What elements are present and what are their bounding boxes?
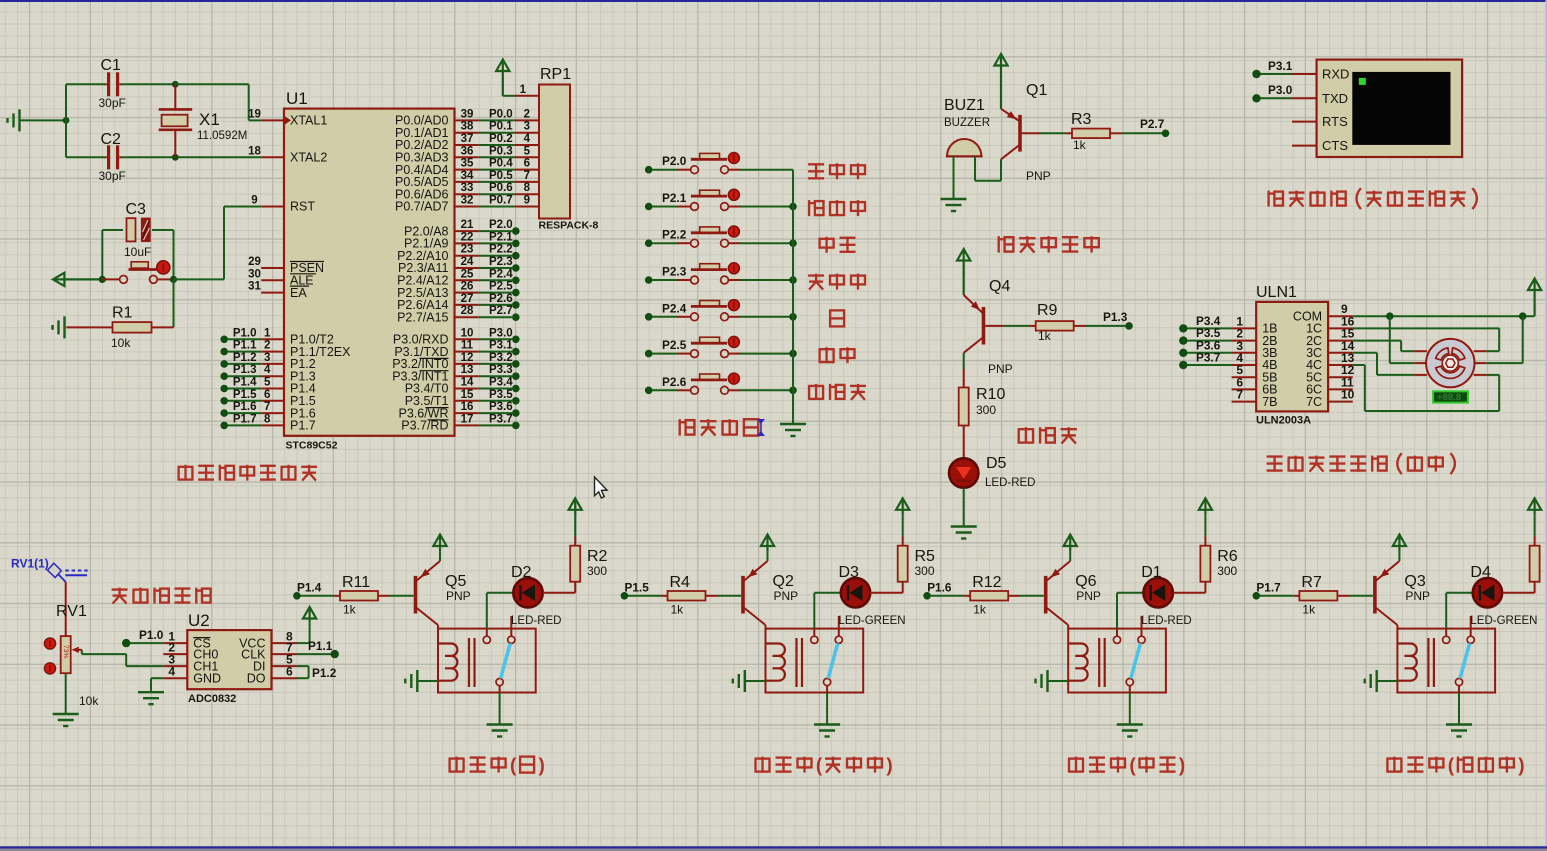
wire P3.7 to ULN bbox=[1187, 364, 1232, 366]
U1 pin P1.3 (4) bbox=[261, 375, 284, 377]
reset button actuator bbox=[157, 261, 170, 274]
svg-text:D1: D1 bbox=[1141, 564, 1162, 581]
svg-text:P1.5: P1.5 bbox=[625, 581, 650, 595]
node P2.5 terminal bbox=[512, 289, 520, 297]
terminal pin CTS bbox=[1292, 145, 1317, 147]
svg-text:9: 9 bbox=[524, 195, 530, 207]
U1 pin P3.6/WR (16) bbox=[455, 412, 479, 414]
wire P3.5 to ULN bbox=[1187, 340, 1232, 342]
capacitor C3 (10uF polarized) bbox=[127, 218, 136, 241]
wire net P0.4 bbox=[479, 169, 515, 171]
LED D4 (LED-GREEN) bbox=[1473, 578, 1502, 607]
svg-text:7: 7 bbox=[264, 401, 270, 413]
svg-text:11: 11 bbox=[461, 340, 474, 352]
node P2.4 terminal bbox=[512, 277, 520, 285]
svg-text:15: 15 bbox=[461, 389, 474, 401]
wire P2.0 to button bbox=[652, 169, 677, 171]
power arrow (reset, pointing left) bbox=[54, 278, 102, 280]
chip U2 ADC0832 body bbox=[187, 630, 271, 689]
svg-text:R9: R9 bbox=[1037, 302, 1058, 319]
wire C2 row left bbox=[66, 156, 105, 158]
ULN1 pin 3B (3) bbox=[1232, 352, 1257, 354]
mouse cursor bbox=[595, 477, 608, 498]
wire probe to RV1 bbox=[65, 582, 67, 636]
label light adjust bbox=[112, 588, 128, 590]
svg-text:R1: R1 bbox=[112, 305, 133, 322]
power arrow (R6) bbox=[1204, 500, 1206, 516]
svg-text:1k: 1k bbox=[1302, 603, 1316, 617]
wire ground to relay coil bbox=[1048, 680, 1069, 682]
wire C1 to junction bbox=[122, 83, 175, 85]
svg-text:30pF: 30pF bbox=[99, 96, 126, 110]
svg-text:6: 6 bbox=[524, 158, 530, 170]
svg-text:CTS: CTS bbox=[1322, 138, 1348, 153]
U1 pin P3.2/INT0 (12) bbox=[455, 363, 479, 365]
svg-text:P0.4: P0.4 bbox=[489, 158, 513, 170]
svg-text:10: 10 bbox=[1341, 388, 1355, 402]
wire ground to relay coil bbox=[1377, 680, 1398, 682]
push button (reset) bbox=[102, 278, 119, 280]
LED D1 (LED-RED) bbox=[1144, 578, 1173, 607]
ground (left of crystal caps) bbox=[18, 109, 20, 131]
svg-text:P1.2: P1.2 bbox=[312, 666, 337, 680]
ULN1 pin 1C (16) bbox=[1328, 327, 1353, 329]
resistor pack RP1 body bbox=[539, 85, 570, 219]
text cursor artifact bbox=[760, 419, 762, 436]
svg-text:13: 13 bbox=[461, 364, 474, 376]
button P2.1 actuator bbox=[728, 189, 739, 200]
svg-text:24: 24 bbox=[461, 256, 474, 268]
wire R9 to P1.3 bbox=[1086, 325, 1126, 327]
virtual terminal (phone sim) bbox=[1317, 60, 1463, 157]
node P1.7 terminal bbox=[220, 422, 228, 430]
svg-text:P3.2: P3.2 bbox=[489, 352, 513, 364]
push button P2.4 bbox=[677, 316, 691, 318]
transistor Q4 PNP bbox=[982, 307, 986, 345]
relay core bbox=[795, 638, 797, 687]
svg-text:31: 31 bbox=[248, 281, 261, 293]
power arrow (Q3) bbox=[1398, 536, 1400, 551]
svg-text:10k: 10k bbox=[111, 336, 131, 350]
svg-text:37: 37 bbox=[461, 133, 474, 145]
wire 1C to motor right top bbox=[1353, 327, 1500, 329]
node P1.0 terminal (U2) bbox=[122, 639, 130, 647]
relay switch blade bbox=[828, 643, 838, 678]
svg-text:RV1: RV1 bbox=[56, 603, 87, 620]
node P3.7 terminal bbox=[512, 422, 520, 430]
svg-text:P3.1: P3.1 bbox=[1268, 59, 1293, 73]
node P3.4 terminal (ULN) bbox=[1179, 324, 1187, 332]
resistor R12 (1k) bbox=[964, 595, 970, 597]
ULN1 pin 4B (4) bbox=[1232, 364, 1257, 366]
svg-text:Q5: Q5 bbox=[445, 573, 466, 590]
label 继电器(门) bbox=[448, 759, 450, 773]
svg-text:PNP: PNP bbox=[988, 362, 1013, 376]
U1 pin P0.3/AD3 (36) bbox=[455, 156, 479, 158]
power arrow (RP1) bbox=[502, 61, 504, 96]
wire P1.5 to R4 bbox=[628, 595, 662, 597]
svg-text:LED-RED: LED-RED bbox=[985, 477, 1035, 489]
U1 pin P2.1/A9 (22) bbox=[455, 242, 479, 244]
wire BUZ1 left leg to ground bbox=[953, 156, 955, 199]
svg-text:D3: D3 bbox=[839, 564, 860, 581]
relay contact poles bbox=[1443, 636, 1450, 643]
node P1.7 terminal (relay) bbox=[1253, 592, 1261, 600]
svg-text:9: 9 bbox=[251, 195, 257, 207]
svg-text:1: 1 bbox=[520, 84, 527, 96]
wire D4 to R8 bbox=[1502, 592, 1535, 594]
svg-text:Q4: Q4 bbox=[989, 278, 1010, 295]
svg-text:33: 33 bbox=[461, 182, 474, 194]
node COM junction A bbox=[1386, 312, 1394, 320]
relay coil box bbox=[1068, 629, 1166, 693]
svg-text:P0.1: P0.1 bbox=[489, 121, 513, 133]
svg-text:P1.1: P1.1 bbox=[308, 639, 333, 653]
svg-text:P0.2: P0.2 bbox=[489, 133, 513, 145]
capacitor C1 bbox=[107, 72, 110, 96]
U1 pin P3.7/RD (17) bbox=[455, 424, 479, 426]
svg-text:P2.7: P2.7 bbox=[1140, 117, 1165, 131]
U1 pin P1.1/T2EX (2) bbox=[261, 351, 284, 353]
svg-text:P1.6: P1.6 bbox=[233, 401, 257, 413]
node button bus junction 6 bbox=[789, 387, 797, 395]
U1 pin ALE (30) bbox=[261, 279, 284, 281]
svg-text:R12: R12 bbox=[972, 574, 1001, 591]
U1 pin P2.2/A10 (23) bbox=[455, 255, 479, 257]
stepper motor pins bbox=[1414, 350, 1427, 352]
svg-text:10k: 10k bbox=[79, 694, 99, 708]
capacitor C2 bbox=[107, 145, 110, 169]
U1 pin P0.7/AD7 (32) bbox=[455, 206, 479, 208]
power arrow (Q2) bbox=[766, 536, 768, 551]
svg-text:RP1: RP1 bbox=[540, 66, 571, 83]
node P3.6 terminal bbox=[512, 409, 520, 417]
svg-text:P0.3: P0.3 bbox=[489, 145, 513, 157]
relay coil box bbox=[438, 629, 536, 693]
svg-text:P1.4: P1.4 bbox=[297, 581, 322, 595]
node P1.0 terminal bbox=[220, 336, 228, 344]
power arrow (R5) bbox=[902, 500, 904, 516]
wire P1.0 to CS bbox=[130, 642, 163, 644]
wire P2.1 to button bbox=[652, 206, 677, 208]
wire Q3 emitter to power bbox=[1398, 551, 1400, 561]
RV1 adjust buttons bbox=[44, 638, 55, 649]
svg-text:P3.7: P3.7 bbox=[489, 413, 513, 425]
wire net P2.7 bbox=[479, 316, 512, 318]
svg-text:P2.0: P2.0 bbox=[489, 219, 513, 231]
resistor R8 (300) bbox=[1530, 546, 1540, 582]
svg-text:PNP: PNP bbox=[1076, 589, 1101, 603]
resistor R9 bbox=[1030, 325, 1036, 327]
wire relay lower contact to ground bbox=[1129, 686, 1131, 693]
wire net P0.7 bbox=[479, 206, 515, 208]
resistor R2 (300) bbox=[570, 546, 580, 582]
U1 pin P2.0/A8 (21) bbox=[455, 230, 479, 232]
wire net P1.5 bbox=[228, 400, 261, 402]
buzzer BUZ1 bbox=[946, 155, 983, 157]
svg-text:RESPACK-8: RESPACK-8 bbox=[539, 220, 599, 232]
wire R4 to Q2 base bbox=[718, 595, 742, 597]
label 照明灯 bbox=[808, 386, 810, 400]
svg-text:P2.5: P2.5 bbox=[662, 338, 687, 352]
wire button bus bbox=[792, 170, 794, 424]
wire R3 to P2.7 bbox=[1122, 132, 1162, 134]
U1 pin XTAL1 (19) bbox=[261, 119, 284, 121]
wire net P2.4 bbox=[479, 279, 512, 281]
wire relay lower contact to ground bbox=[826, 686, 828, 693]
svg-text:P3.4: P3.4 bbox=[489, 377, 513, 389]
ULN1 pin 1B (1) bbox=[1232, 327, 1257, 329]
svg-text:P1.4: P1.4 bbox=[233, 377, 257, 389]
wire R11 to Q5 base bbox=[390, 595, 414, 597]
svg-text:30: 30 bbox=[248, 268, 261, 280]
relay coil bbox=[439, 644, 458, 681]
node button bus junction 4 bbox=[789, 313, 797, 321]
svg-text:PNP: PNP bbox=[446, 589, 471, 603]
svg-text:(: ( bbox=[1129, 756, 1136, 777]
wire P2.5 to button bbox=[652, 353, 677, 355]
svg-text:ULN2003A: ULN2003A bbox=[1256, 415, 1311, 427]
wire P1.7 to R7 bbox=[1260, 595, 1294, 597]
node P3.0 terminal bbox=[512, 336, 520, 344]
U1 pin P3.0/RXD (10) bbox=[455, 338, 479, 340]
power arrow (Q6) bbox=[1069, 536, 1071, 551]
svg-text:RST: RST bbox=[290, 200, 315, 214]
svg-text:+88.8: +88.8 bbox=[1437, 392, 1461, 403]
svg-text:P2.3: P2.3 bbox=[662, 265, 687, 279]
svg-text:4: 4 bbox=[524, 133, 531, 145]
svg-text:7C: 7C bbox=[1306, 395, 1322, 409]
svg-text:1k: 1k bbox=[1073, 138, 1087, 152]
resistor R1 bbox=[66, 326, 112, 328]
wire relay contact to LED bbox=[486, 629, 488, 637]
svg-text:P3.5: P3.5 bbox=[489, 389, 513, 401]
U1 pin P3.4/T0 (14) bbox=[455, 388, 479, 390]
relay switch blade bbox=[1460, 643, 1470, 678]
svg-text:10uF: 10uF bbox=[124, 245, 151, 259]
svg-text:U2: U2 bbox=[188, 611, 210, 630]
U1 pin P3.3/INT1 (13) bbox=[455, 375, 479, 377]
svg-text:R4: R4 bbox=[670, 574, 691, 591]
node P2.2 terminal bbox=[512, 252, 520, 260]
wire net P0.3 bbox=[479, 156, 515, 158]
wire button P2.4 to bus bbox=[740, 316, 793, 318]
svg-text:P2.2: P2.2 bbox=[489, 244, 513, 256]
wire relay lower contact to ground bbox=[499, 686, 501, 693]
terminal pin TXD bbox=[1292, 97, 1317, 99]
wire Q2 emitter to power bbox=[767, 551, 769, 561]
U1 pin EA (31) bbox=[261, 292, 284, 294]
wire RV1 wiper to CH1 bbox=[81, 650, 83, 654]
node COM junction B bbox=[1519, 312, 1527, 320]
svg-text:): ) bbox=[1518, 756, 1524, 777]
svg-text:X1: X1 bbox=[199, 110, 220, 129]
U2 pin DI (5) bbox=[272, 665, 297, 667]
svg-text:23: 23 bbox=[461, 244, 474, 256]
svg-text:14: 14 bbox=[461, 377, 474, 389]
power arrow (R8) bbox=[1533, 500, 1535, 516]
U2 pin CS (1) bbox=[163, 642, 187, 644]
wire D2 to R2 bbox=[543, 592, 576, 594]
label 空调 bbox=[820, 239, 834, 248]
button P2.6 actuator bbox=[728, 373, 739, 384]
wire C1 row left bbox=[66, 83, 105, 85]
node P3.4 terminal bbox=[512, 385, 520, 393]
terminal pin RXD bbox=[1292, 73, 1317, 75]
relay coil bbox=[766, 644, 785, 681]
svg-text:STC89C52: STC89C52 bbox=[286, 440, 338, 452]
svg-text:): ) bbox=[886, 756, 892, 777]
svg-text:P1.7: P1.7 bbox=[1256, 581, 1281, 595]
node P1.3 terminal bbox=[1125, 322, 1133, 330]
U2 pin CH0 (2) bbox=[163, 653, 187, 655]
resistor R5 (300) bbox=[898, 546, 908, 582]
svg-text:P1.5: P1.5 bbox=[233, 389, 257, 401]
svg-text:C3: C3 bbox=[126, 201, 147, 218]
U2 pin DO (6) bbox=[272, 677, 297, 679]
wire button P2.2 to bus bbox=[740, 242, 793, 244]
ground (BUZ1) bbox=[941, 198, 967, 200]
window border bottom bbox=[0, 846, 1547, 848]
U1 pin P2.7/A15 (28) bbox=[455, 316, 479, 318]
wire P3.6 to ULN bbox=[1187, 352, 1232, 354]
resistor R3 bbox=[1066, 132, 1073, 134]
svg-text:2: 2 bbox=[524, 108, 530, 120]
wire button P2.1 to bus bbox=[740, 206, 793, 208]
node P1.6 terminal (relay) bbox=[923, 592, 931, 600]
relay NO stub bbox=[1470, 616, 1472, 636]
svg-text:P2.1: P2.1 bbox=[489, 231, 513, 243]
label 热水器 bbox=[808, 274, 824, 276]
push button P2.0 bbox=[677, 169, 691, 171]
button P2.4 actuator bbox=[728, 300, 739, 311]
wire Q2 collector to relay bbox=[765, 625, 767, 629]
relay switch blade bbox=[1131, 643, 1141, 678]
node reset button left bbox=[99, 276, 106, 283]
relay core bbox=[1427, 638, 1429, 687]
U1 pin P1.7 (8) bbox=[261, 424, 284, 426]
resistor R10 bbox=[963, 369, 965, 387]
relay contact poles bbox=[1113, 636, 1120, 643]
wire net P0.2 bbox=[479, 144, 515, 146]
node P1.3 terminal bbox=[220, 372, 228, 380]
svg-text:P1.2: P1.2 bbox=[233, 352, 257, 364]
svg-text:35: 35 bbox=[461, 158, 474, 170]
wire C2 row to XTAL2 bbox=[122, 156, 261, 158]
wire P2.4 to button bbox=[652, 316, 677, 318]
svg-text:38: 38 bbox=[461, 121, 474, 133]
RP1 pin 9 bbox=[515, 206, 539, 208]
U1 pin P2.4/A12 (25) bbox=[455, 279, 479, 281]
svg-text:BUZZER: BUZZER bbox=[944, 117, 990, 129]
wire R12 to Q6 base bbox=[1020, 595, 1043, 597]
svg-text:EA: EA bbox=[290, 286, 307, 300]
node reset button right bbox=[170, 276, 177, 283]
svg-text:): ) bbox=[1179, 756, 1185, 777]
wire net P1.0 bbox=[228, 338, 261, 340]
relay coil bbox=[1069, 644, 1088, 681]
push button P2.1 bbox=[677, 206, 691, 208]
wire R7 to Q3 base bbox=[1349, 595, 1373, 597]
svg-text:P2.6: P2.6 bbox=[489, 293, 513, 305]
RP1 pin 6 bbox=[515, 169, 539, 171]
wire RV1 to ground bbox=[65, 673, 67, 714]
node P1.4 terminal (relay) bbox=[293, 592, 301, 600]
crystal X1 bbox=[174, 84, 176, 109]
wire net P1.4 bbox=[228, 388, 261, 390]
RP1 pin 3 bbox=[515, 132, 539, 134]
transistor Q1 PNP bbox=[1018, 115, 1022, 152]
svg-text:C1: C1 bbox=[101, 57, 122, 74]
svg-text:LED-GREEN: LED-GREEN bbox=[839, 615, 906, 627]
svg-text:P0.0: P0.0 bbox=[489, 108, 513, 120]
wire relay lower contact to ground bbox=[1458, 686, 1460, 693]
ULN1 pin 7B (7) bbox=[1232, 401, 1257, 403]
wire net P2.5 bbox=[479, 292, 512, 294]
LED D5 (LED-RED) bbox=[949, 458, 978, 487]
node P1.5 terminal bbox=[220, 397, 228, 405]
ground (relay coil) bbox=[416, 670, 418, 692]
wire net P3.6 bbox=[479, 412, 512, 414]
label 门 bbox=[830, 310, 844, 326]
wire U2 GND bbox=[151, 677, 163, 679]
power arrow (motor supply) bbox=[1533, 280, 1535, 316]
label 继电器(加湿器) bbox=[1386, 759, 1388, 773]
svg-text:28: 28 bbox=[461, 305, 474, 317]
node button bus junction 3 bbox=[789, 276, 797, 284]
node button bus junction 5 bbox=[789, 350, 797, 358]
RP1 pin 1 bbox=[515, 95, 539, 97]
svg-text:GND: GND bbox=[193, 671, 221, 685]
wire button P2.5 to bus bbox=[740, 353, 793, 355]
U1 pin P1.4 (5) bbox=[261, 388, 284, 390]
svg-text:1k: 1k bbox=[1038, 329, 1052, 343]
ULN1 pin 6B (6) bbox=[1232, 388, 1257, 390]
label stepper motor (curtain) bbox=[1267, 455, 1283, 457]
node P2.5 button terminal bbox=[645, 350, 653, 358]
transistor Q6 PNP bbox=[1044, 576, 1048, 614]
svg-text:12: 12 bbox=[461, 352, 474, 364]
svg-text:P3.6: P3.6 bbox=[489, 401, 513, 413]
U1 pin RST (9) bbox=[261, 206, 284, 208]
relay core bbox=[1098, 638, 1100, 687]
label independent keys bbox=[678, 419, 680, 435]
wire 2C to motor left top bbox=[1353, 340, 1401, 342]
node P3.3 terminal bbox=[512, 372, 520, 380]
svg-text:ULN1: ULN1 bbox=[1256, 284, 1297, 301]
wire net P1.2 bbox=[228, 363, 261, 365]
relay contact poles bbox=[811, 636, 818, 643]
svg-text:1k: 1k bbox=[671, 603, 685, 617]
svg-text:PNP: PNP bbox=[1405, 589, 1430, 603]
relay coil box bbox=[1397, 629, 1495, 693]
wire CLK to P1.1 bbox=[297, 653, 332, 655]
button P2.3 actuator bbox=[728, 263, 739, 274]
svg-text:(: ( bbox=[510, 756, 517, 777]
svg-text:1k: 1k bbox=[973, 603, 987, 617]
wire C3 right rail bbox=[173, 230, 175, 279]
U2 pin GND (4) bbox=[163, 677, 187, 679]
chip U1 STC89C52 body bbox=[284, 109, 455, 436]
ULN1 pin 3C (14) bbox=[1328, 352, 1353, 354]
U1 pin P1.0/T2 (1) bbox=[261, 338, 284, 340]
label buzzer alarm bbox=[997, 236, 999, 252]
svg-text:R2: R2 bbox=[587, 548, 608, 565]
RV1 wiper arrow bbox=[72, 647, 79, 653]
wire D5 to ground bbox=[963, 488, 965, 527]
wire button P2.0 to bus bbox=[740, 169, 793, 171]
node junction C2/X1 bbox=[172, 154, 179, 161]
